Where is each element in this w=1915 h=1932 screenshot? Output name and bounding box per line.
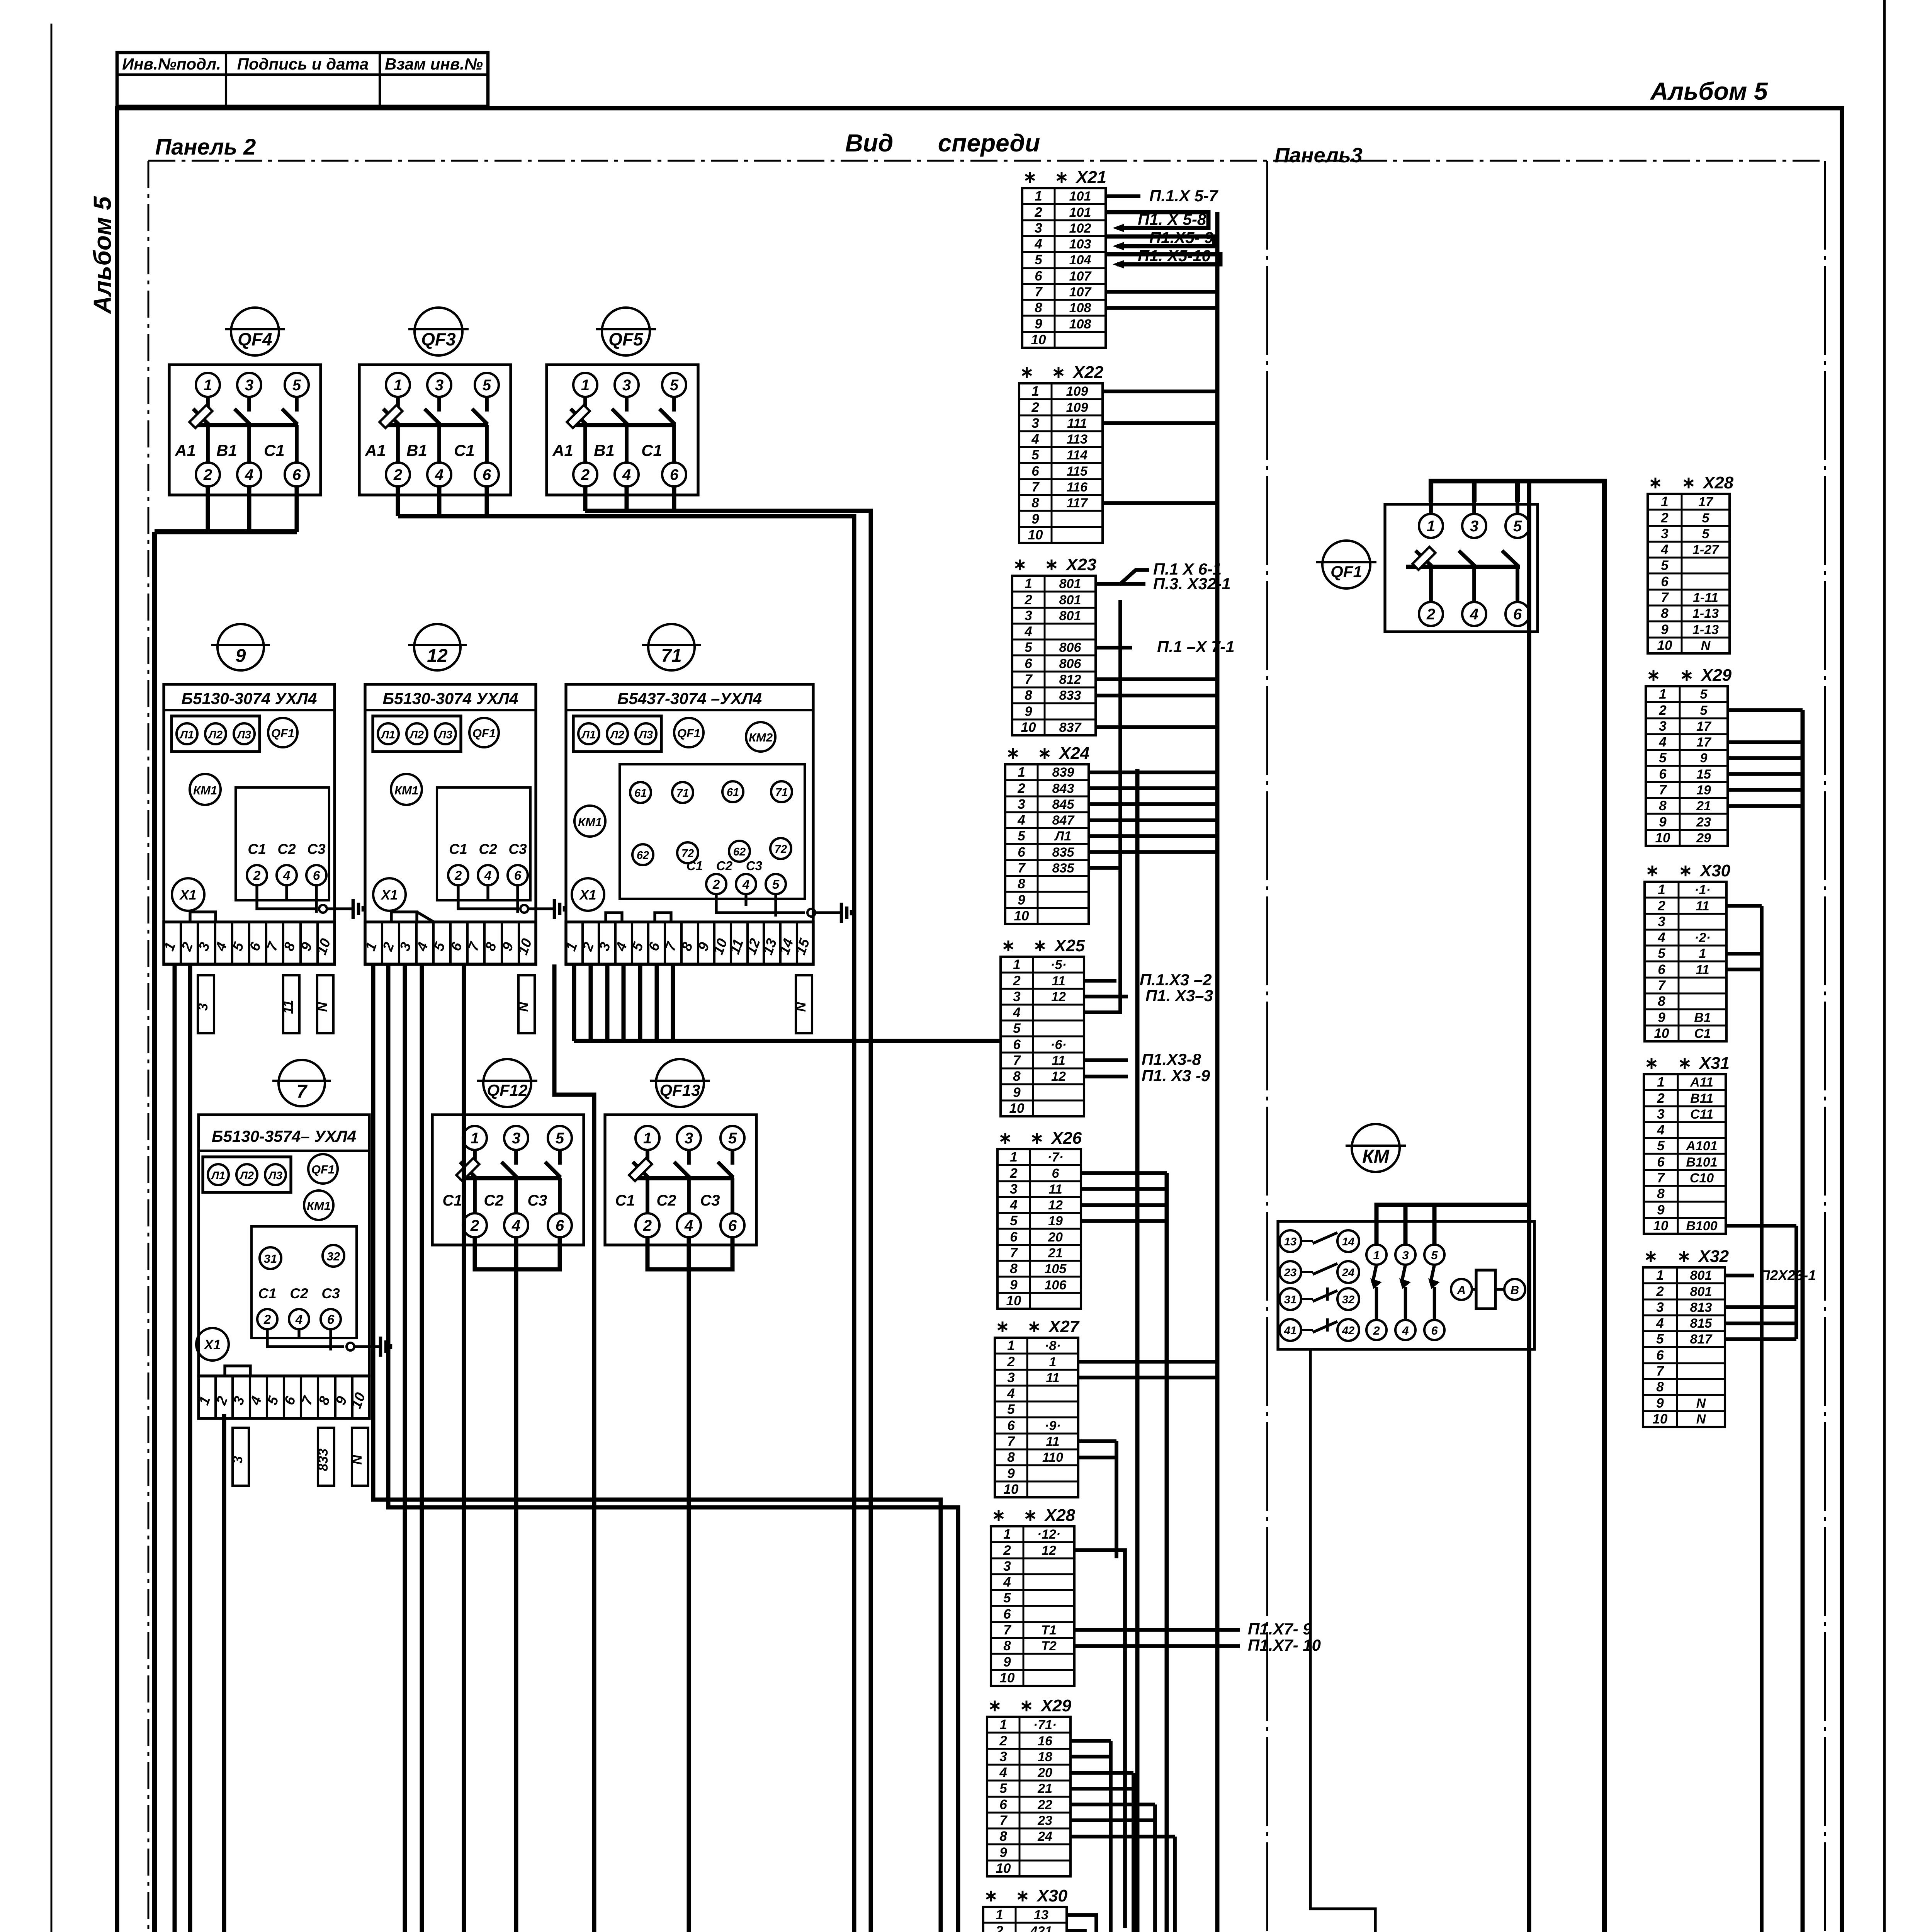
svg-text:62: 62: [733, 846, 746, 858]
svg-text:5: 5: [999, 1781, 1007, 1796]
svg-text:·7·: ·7·: [1047, 1150, 1064, 1165]
svg-text:Х25: Х25: [1054, 936, 1085, 955]
svg-text:КМ1: КМ1: [578, 815, 602, 829]
svg-text:9: 9: [1659, 815, 1667, 830]
svg-text:8: 8: [1013, 1069, 1021, 1084]
svg-text:3: 3: [245, 377, 253, 394]
svg-text:4: 4: [622, 466, 631, 483]
svg-text:1: 1: [996, 1907, 1003, 1922]
svg-text:С3: С3: [321, 1286, 340, 1301]
svg-text:102: 102: [1069, 221, 1091, 236]
svg-text:С1: С1: [248, 841, 266, 857]
svg-text:3: 3: [999, 1749, 1007, 1764]
svg-text:С11: С11: [1690, 1107, 1713, 1122]
svg-text:Х28: Х28: [1702, 473, 1734, 492]
svg-text:31: 31: [1284, 1294, 1296, 1306]
svg-text:42: 42: [1342, 1325, 1354, 1337]
svg-text:839: 839: [1052, 765, 1074, 780]
svg-text:6: 6: [1031, 464, 1039, 479]
svg-text:N: N: [1696, 1396, 1706, 1411]
svg-text:17: 17: [1696, 719, 1712, 734]
svg-text:7: 7: [1018, 861, 1026, 876]
svg-text:4: 4: [511, 1217, 520, 1234]
svg-text:2: 2: [1007, 1354, 1015, 1369]
svg-text:Л3: Л3: [638, 729, 653, 741]
svg-text:6: 6: [1659, 767, 1667, 782]
svg-text:5: 5: [670, 377, 679, 394]
svg-text:837: 837: [1059, 720, 1082, 735]
svg-text:2: 2: [1031, 400, 1039, 415]
svg-text:Л1: Л1: [581, 729, 596, 741]
svg-text:QF1: QF1: [271, 726, 294, 740]
svg-text:1-13: 1-13: [1692, 622, 1719, 637]
svg-text:Панель 2: Панель 2: [155, 134, 256, 160]
svg-text:6: 6: [1007, 1418, 1015, 1433]
svg-text:1: 1: [1659, 687, 1666, 702]
svg-text:6: 6: [1513, 606, 1522, 623]
svg-text:2: 2: [1657, 898, 1665, 913]
svg-text:9: 9: [1010, 1277, 1018, 1293]
svg-text:3: 3: [1658, 914, 1665, 929]
svg-text:N: N: [794, 1002, 809, 1012]
svg-text:19: 19: [1048, 1214, 1063, 1228]
svg-text:6: 6: [1018, 845, 1025, 860]
svg-text:С1: С1: [449, 841, 467, 857]
svg-text:А1: А1: [552, 441, 573, 459]
svg-text:3: 3: [1659, 719, 1667, 734]
svg-text:5: 5: [1431, 1248, 1438, 1262]
svg-text:6: 6: [1010, 1230, 1018, 1245]
svg-text:1: 1: [1010, 1150, 1017, 1165]
svg-text:С1: С1: [258, 1286, 276, 1301]
svg-text:801: 801: [1059, 593, 1081, 607]
svg-text:спереди: спереди: [938, 129, 1040, 157]
svg-text:10: 10: [1028, 527, 1043, 543]
svg-text:11: 11: [281, 1000, 296, 1014]
svg-text:6: 6: [1658, 962, 1665, 977]
svg-text:Х32: Х32: [1698, 1247, 1729, 1266]
svg-text:3: 3: [1657, 1107, 1665, 1122]
svg-text:4: 4: [1017, 813, 1025, 828]
svg-text:3: 3: [195, 1003, 211, 1011]
svg-text:3: 3: [1661, 526, 1669, 541]
svg-text:Х22: Х22: [1072, 363, 1104, 382]
svg-text:4: 4: [295, 1312, 302, 1327]
svg-text:П.1.Х 5-7: П.1.Х 5-7: [1149, 187, 1218, 205]
svg-text:13: 13: [1034, 1908, 1048, 1922]
svg-text:С10: С10: [1690, 1171, 1714, 1185]
svg-text:С3: С3: [700, 1192, 720, 1209]
svg-text:108: 108: [1069, 301, 1091, 315]
svg-text:11: 11: [1046, 1434, 1059, 1449]
svg-text:А11: А11: [1690, 1075, 1713, 1090]
svg-text:18: 18: [1038, 1750, 1052, 1764]
svg-text:7: 7: [1035, 284, 1043, 299]
svg-text:П.1 –Х 7-1: П.1 –Х 7-1: [1157, 638, 1235, 656]
svg-text:2: 2: [263, 1312, 271, 1327]
svg-text:П1. Х5-10: П1. Х5-10: [1138, 247, 1211, 265]
svg-text:71: 71: [661, 646, 681, 666]
svg-text:5: 5: [556, 1130, 564, 1147]
svg-text:В1: В1: [1694, 1010, 1711, 1025]
svg-text:П1. Х3 -9: П1. Х3 -9: [1142, 1066, 1210, 1085]
svg-text:2: 2: [1024, 592, 1032, 607]
svg-text:8: 8: [1025, 688, 1032, 703]
svg-text:1: 1: [1018, 765, 1025, 780]
svg-text:8: 8: [999, 1829, 1007, 1844]
svg-text:1: 1: [394, 377, 402, 394]
svg-text:Х1: Х1: [204, 1337, 221, 1352]
svg-text:Х30: Х30: [1036, 1886, 1068, 1905]
svg-text:4: 4: [435, 466, 443, 483]
svg-text:801: 801: [1690, 1268, 1712, 1283]
svg-text:115: 115: [1067, 464, 1088, 479]
svg-text:7: 7: [1659, 782, 1667, 798]
svg-text:4: 4: [1657, 930, 1665, 945]
svg-text:Взам инв.№: Взам инв.№: [385, 55, 483, 73]
svg-text:2: 2: [1373, 1324, 1380, 1337]
svg-text:20: 20: [1037, 1765, 1052, 1780]
svg-text:111: 111: [1067, 416, 1087, 431]
svg-text:10: 10: [1653, 1218, 1669, 1233]
svg-text:6: 6: [327, 1312, 335, 1327]
svg-text:1: 1: [1699, 946, 1706, 961]
svg-text:Х1: Х1: [579, 888, 596, 903]
svg-text:Л3: Л3: [236, 729, 251, 741]
svg-text:8: 8: [1035, 300, 1042, 315]
svg-text:6: 6: [1656, 1348, 1664, 1363]
svg-text:Панель3: Панель3: [1274, 144, 1363, 167]
svg-text:8: 8: [1661, 606, 1669, 621]
svg-text:6: 6: [1003, 1607, 1011, 1622]
svg-text:Подпись и дата: Подпись и дата: [237, 55, 369, 73]
svg-text:4: 4: [1657, 1122, 1664, 1138]
svg-text:801: 801: [1059, 577, 1081, 591]
svg-text:114: 114: [1067, 448, 1087, 463]
svg-text:10: 10: [1031, 332, 1046, 347]
svg-text:3: 3: [435, 377, 443, 394]
svg-text:108: 108: [1069, 317, 1091, 332]
svg-text:29: 29: [1696, 831, 1711, 845]
svg-text:5: 5: [1700, 703, 1708, 718]
svg-text:1: 1: [1661, 494, 1668, 509]
svg-text:Х29: Х29: [1040, 1696, 1072, 1715]
svg-text:1: 1: [1025, 576, 1032, 591]
svg-text:17: 17: [1698, 495, 1714, 509]
svg-text:Альбом 5: Альбом 5: [88, 196, 116, 315]
svg-text:КМ2: КМ2: [749, 731, 773, 744]
svg-text:2: 2: [1657, 1091, 1665, 1106]
svg-text:5: 5: [728, 1130, 737, 1147]
svg-text:4: 4: [1402, 1324, 1409, 1337]
svg-text:32: 32: [1342, 1294, 1354, 1306]
svg-text:817: 817: [1690, 1332, 1713, 1347]
svg-text:Х29: Х29: [1700, 666, 1732, 685]
svg-text:3: 3: [1018, 797, 1025, 812]
svg-text:Л2: Л2: [409, 729, 424, 741]
svg-text:10: 10: [1653, 1412, 1668, 1427]
svg-text:П1. Х 5-8: П1. Х 5-8: [1138, 210, 1206, 228]
svg-text:8: 8: [1010, 1261, 1018, 1276]
svg-text:3: 3: [230, 1456, 245, 1464]
svg-text:4: 4: [1013, 1005, 1020, 1020]
svg-text:8: 8: [1018, 876, 1025, 891]
svg-text:801: 801: [1690, 1284, 1712, 1299]
svg-text:1-13: 1-13: [1692, 606, 1719, 621]
svg-text:801: 801: [1059, 609, 1081, 623]
svg-text:806: 806: [1059, 640, 1082, 655]
svg-text:3: 3: [1025, 608, 1032, 623]
svg-text:10: 10: [1014, 908, 1029, 923]
svg-text:10: 10: [996, 1861, 1011, 1876]
svg-text:3: 3: [1013, 989, 1021, 1004]
svg-text:10: 10: [1009, 1101, 1025, 1116]
svg-text:1: 1: [1013, 957, 1020, 972]
svg-text:С1: С1: [264, 441, 285, 459]
svg-text:32: 32: [327, 1250, 340, 1263]
svg-text:Х23: Х23: [1065, 555, 1096, 574]
svg-text:72: 72: [775, 843, 787, 855]
svg-text:С2: С2: [277, 841, 296, 857]
svg-text:4: 4: [1003, 1575, 1011, 1590]
svg-text:21: 21: [1048, 1246, 1063, 1260]
svg-text:117: 117: [1067, 496, 1088, 510]
svg-text:2: 2: [643, 1217, 652, 1234]
svg-text:С3: С3: [746, 859, 762, 873]
svg-text:9: 9: [999, 1845, 1007, 1860]
svg-text:421: 421: [1030, 1924, 1052, 1932]
svg-text:109: 109: [1066, 400, 1088, 415]
svg-text:В101: В101: [1686, 1155, 1717, 1170]
svg-text:6: 6: [292, 466, 301, 483]
svg-text:7: 7: [1013, 1053, 1021, 1068]
svg-text:9: 9: [1658, 1010, 1665, 1025]
svg-text:10: 10: [1657, 638, 1672, 653]
svg-text:103: 103: [1069, 237, 1091, 252]
svg-text:7: 7: [297, 1082, 308, 1102]
svg-text:QF1: QF1: [1330, 563, 1362, 581]
svg-text:С1: С1: [442, 1192, 462, 1209]
svg-text:9: 9: [1031, 512, 1039, 527]
svg-text:N: N: [516, 1002, 531, 1012]
svg-text:5: 5: [1661, 558, 1669, 573]
svg-text:2: 2: [1658, 703, 1667, 718]
svg-text:4: 4: [684, 1217, 693, 1234]
svg-text:В11: В11: [1690, 1091, 1713, 1106]
svg-text:П1.Х7- 9: П1.Х7- 9: [1248, 1620, 1312, 1638]
svg-text:23: 23: [1037, 1813, 1052, 1828]
svg-text:6: 6: [483, 466, 491, 483]
svg-text:С2: С2: [716, 859, 733, 873]
svg-text:Альбом 5: Альбом 5: [1650, 77, 1768, 105]
svg-text:22: 22: [1037, 1798, 1052, 1812]
svg-text:6: 6: [728, 1217, 737, 1234]
svg-text:П2Х23-1: П2Х23-1: [1760, 1267, 1816, 1283]
svg-text:1: 1: [1427, 518, 1435, 535]
svg-text:8: 8: [1659, 798, 1667, 813]
svg-text:6: 6: [313, 868, 320, 883]
svg-text:N: N: [315, 1002, 330, 1012]
svg-text:3: 3: [1035, 221, 1042, 236]
svg-text:14: 14: [1342, 1236, 1354, 1248]
svg-text:9: 9: [1656, 1396, 1664, 1411]
svg-text:1-11: 1-11: [1693, 590, 1718, 605]
svg-text:5: 5: [483, 377, 491, 394]
svg-text:16: 16: [1038, 1734, 1053, 1748]
svg-text:4: 4: [1009, 1197, 1017, 1213]
svg-text:3: 3: [1031, 416, 1039, 431]
svg-text:КМ: КМ: [1362, 1146, 1390, 1167]
svg-text:4: 4: [1007, 1386, 1014, 1401]
svg-text:N: N: [1701, 638, 1711, 653]
svg-text:2: 2: [1003, 1543, 1011, 1558]
svg-text:8: 8: [1658, 994, 1665, 1009]
svg-text:2: 2: [1034, 205, 1042, 220]
svg-text:21: 21: [1696, 799, 1711, 813]
svg-text:116: 116: [1067, 480, 1088, 495]
svg-text:Х1: Х1: [179, 888, 197, 903]
svg-text:7: 7: [1657, 1170, 1665, 1185]
svg-text:9: 9: [236, 646, 246, 666]
svg-text:106: 106: [1045, 1278, 1067, 1293]
svg-text:QF1: QF1: [472, 726, 496, 740]
svg-text:8: 8: [1657, 1186, 1665, 1201]
svg-text:·1·: ·1·: [1694, 883, 1711, 897]
svg-text:806: 806: [1059, 656, 1082, 671]
svg-text:4: 4: [1658, 735, 1666, 750]
svg-text:Б5130-3574– УХЛ4: Б5130-3574– УХЛ4: [212, 1127, 356, 1145]
svg-text:61: 61: [634, 787, 647, 799]
svg-text:П1.Х5- 9: П1.Х5- 9: [1149, 228, 1213, 247]
svg-text:11: 11: [1046, 1371, 1059, 1385]
svg-text:10: 10: [1000, 1670, 1015, 1685]
svg-text:Х31: Х31: [1698, 1054, 1730, 1073]
svg-text:5: 5: [1702, 527, 1710, 541]
svg-text:4: 4: [245, 466, 253, 483]
svg-text:QF3: QF3: [421, 329, 456, 349]
svg-text:1: 1: [1007, 1338, 1014, 1353]
svg-text:КМ1: КМ1: [307, 1199, 331, 1213]
svg-text:3: 3: [1010, 1182, 1018, 1197]
svg-text:Б5130-3074 УХЛ4: Б5130-3074 УХЛ4: [383, 689, 518, 707]
svg-text:1: 1: [1035, 189, 1042, 204]
svg-text:109: 109: [1066, 384, 1088, 399]
svg-text:·8·: ·8·: [1045, 1338, 1061, 1353]
svg-text:3: 3: [1003, 1559, 1011, 1574]
svg-text:4: 4: [742, 877, 749, 891]
svg-text:·2·: ·2·: [1694, 930, 1711, 945]
svg-text:С1: С1: [1694, 1026, 1711, 1041]
svg-text:5: 5: [1035, 252, 1042, 267]
svg-text:1: 1: [643, 1130, 652, 1147]
svg-text:1: 1: [581, 377, 590, 394]
svg-text:9: 9: [1013, 1085, 1021, 1100]
svg-text:41: 41: [1284, 1325, 1296, 1337]
svg-text:12: 12: [427, 646, 448, 666]
svg-text:107: 107: [1069, 269, 1092, 284]
svg-text:3: 3: [685, 1130, 693, 1147]
svg-text:В1: В1: [406, 441, 427, 459]
svg-text:П.1.Х3 –2: П.1.Х3 –2: [1140, 971, 1212, 989]
svg-text:5: 5: [1658, 946, 1665, 961]
svg-text:А1: А1: [175, 441, 196, 459]
svg-text:113: 113: [1067, 432, 1087, 447]
svg-text:5: 5: [1700, 687, 1708, 702]
svg-text:2: 2: [470, 1217, 479, 1234]
svg-text:2: 2: [999, 1733, 1007, 1748]
svg-text:9: 9: [1003, 1655, 1011, 1670]
svg-text:845: 845: [1052, 797, 1075, 812]
svg-text:С2: С2: [484, 1192, 503, 1209]
svg-text:Л2: Л2: [208, 729, 223, 741]
svg-text:6: 6: [1052, 1166, 1060, 1181]
svg-text:3: 3: [1402, 1248, 1409, 1262]
svg-text:3: 3: [512, 1130, 520, 1147]
svg-text:3: 3: [1470, 518, 1478, 535]
svg-text:5: 5: [1659, 750, 1667, 765]
svg-text:12: 12: [1042, 1543, 1056, 1558]
svg-text:7: 7: [1007, 1434, 1015, 1449]
svg-text:4: 4: [1024, 624, 1032, 639]
svg-text:7: 7: [1025, 672, 1033, 687]
svg-text:Х28: Х28: [1044, 1506, 1076, 1525]
svg-text:5: 5: [1657, 1138, 1665, 1153]
svg-text:П1. Х3–3: П1. Х3–3: [1145, 986, 1213, 1005]
svg-text:N: N: [1696, 1412, 1706, 1427]
svg-text:А1: А1: [365, 441, 386, 459]
svg-text:2: 2: [1017, 781, 1025, 796]
svg-text:С3: С3: [508, 841, 527, 857]
svg-text:23: 23: [1284, 1267, 1296, 1279]
svg-text:Х1: Х1: [381, 888, 398, 903]
svg-text:9: 9: [1025, 704, 1032, 719]
svg-text:23: 23: [1696, 815, 1711, 830]
svg-text:6: 6: [1025, 656, 1032, 671]
svg-text:10: 10: [1655, 830, 1670, 845]
svg-text:6: 6: [1013, 1037, 1021, 1052]
svg-text:Х24: Х24: [1058, 744, 1089, 763]
svg-text:Т1: Т1: [1041, 1623, 1057, 1638]
svg-text:С2: С2: [479, 841, 497, 857]
svg-text:С1: С1: [615, 1192, 635, 1209]
svg-text:КМ1: КМ1: [394, 784, 418, 797]
svg-text:Л2: Л2: [239, 1170, 254, 1182]
svg-text:6: 6: [514, 868, 522, 883]
svg-text:С3: С3: [527, 1192, 547, 1209]
svg-text:6: 6: [1035, 269, 1042, 284]
svg-text:4: 4: [1660, 542, 1668, 557]
svg-text:7: 7: [999, 1813, 1008, 1828]
svg-text:1: 1: [471, 1130, 479, 1147]
svg-text:4: 4: [1470, 606, 1478, 623]
svg-text:3: 3: [1656, 1300, 1664, 1315]
svg-text:5: 5: [772, 877, 780, 891]
svg-text:Б5130-3074 УХЛ4: Б5130-3074 УХЛ4: [182, 689, 317, 707]
svg-text:В1: В1: [216, 441, 237, 459]
svg-text:110: 110: [1042, 1450, 1063, 1465]
svg-text:2: 2: [581, 466, 590, 483]
svg-text:С2: С2: [290, 1286, 308, 1301]
svg-text:13: 13: [1284, 1236, 1296, 1248]
svg-text:6: 6: [1431, 1324, 1438, 1337]
svg-text:2: 2: [203, 466, 212, 483]
svg-text:11: 11: [1696, 963, 1709, 977]
svg-text:5: 5: [1513, 518, 1522, 535]
svg-text:812: 812: [1059, 672, 1081, 687]
svg-text:1: 1: [1658, 882, 1665, 897]
svg-text:11: 11: [1048, 1182, 1062, 1197]
svg-text:19: 19: [1696, 783, 1711, 798]
